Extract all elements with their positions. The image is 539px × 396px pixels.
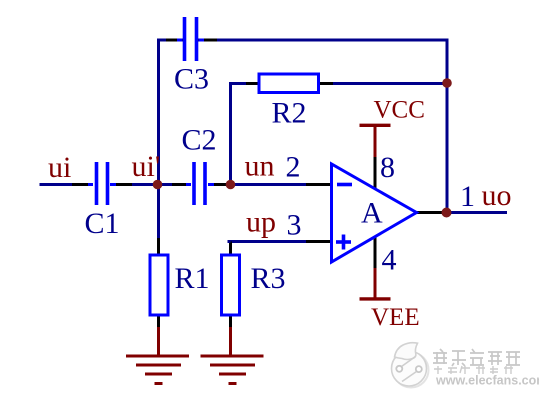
label C2: [182, 124, 217, 157]
label R2: [272, 97, 307, 130]
capacitor C3: [177, 17, 204, 61]
wire right vertical: [446, 39, 449, 213]
pin op-amp 1 output: [416, 211, 447, 214]
wire ui' vertical up to C3: [157, 40, 160, 185]
svg-text:R2: R2: [272, 97, 307, 130]
pin C2 left: [172, 183, 188, 186]
svg-text:VCC: VCC: [374, 97, 425, 124]
label R3: [251, 262, 286, 295]
watermark logo: [392, 343, 429, 388]
svg-text:8: 8: [380, 151, 395, 184]
label op-amp A: [361, 197, 383, 230]
svg-text:3: 3: [287, 209, 302, 242]
pin R2 right: [318, 82, 333, 85]
wire un to op-amp pin 2: [231, 183, 331, 186]
label C3: [174, 63, 209, 96]
node un junction: [226, 180, 236, 190]
svg-text:un: un: [245, 150, 275, 183]
svg-text:A: A: [361, 197, 383, 230]
label pin 8: [380, 151, 395, 184]
wire C3 to top right corner: [198, 39, 449, 42]
wire C1 to ui': [112, 183, 157, 186]
ground under R1: [126, 356, 189, 384]
wire C2 to un: [209, 183, 232, 186]
svg-text:4: 4: [382, 244, 397, 277]
resistor R3: [222, 255, 240, 315]
label pin 3: [287, 209, 302, 242]
pin R1 bottom: [157, 315, 160, 328]
wire ui' vertical down to R1: [157, 185, 160, 249]
wire up horizontal to pin 3: [229, 240, 331, 243]
svg-text:ui: ui: [48, 151, 71, 184]
svg-text:1: 1: [460, 180, 475, 213]
pin C1 left: [72, 183, 88, 186]
power VEE symbol: [360, 268, 391, 299]
pin R3 top: [229, 240, 231, 255]
label R1: [175, 262, 210, 295]
ground lead R1: [157, 327, 160, 357]
svg-text:www.elecfans.com: www.elecfans.com: [435, 374, 539, 388]
wire top left to C3: [157, 39, 183, 42]
pin C2 right: [212, 183, 226, 186]
svg-text:R1: R1: [175, 262, 210, 295]
label VCC: [374, 97, 425, 124]
pin op-amp 4: [374, 237, 377, 270]
svg-text:R3: R3: [251, 262, 286, 295]
svg-text:C2: C2: [182, 124, 217, 157]
wire input ui horizontal: [40, 183, 93, 186]
label VEE: [371, 304, 420, 331]
wire ui' to C2: [157, 183, 190, 186]
svg-text:C1: C1: [85, 207, 120, 240]
power VCC symbol: [360, 125, 391, 157]
ground lead R3: [229, 327, 232, 357]
svg-text:up: up: [246, 206, 276, 239]
wire output: [447, 211, 507, 214]
svg-text:uo: uo: [482, 179, 512, 212]
pin op-amp 3: [306, 240, 331, 243]
pin C1 right: [116, 183, 132, 186]
resistor R1: [150, 255, 168, 315]
capacitor C1: [88, 162, 116, 205]
node ui' junction: [153, 180, 163, 190]
label ui: [48, 151, 71, 184]
pin R3 bottom: [229, 315, 232, 328]
pin op-amp 8: [374, 155, 377, 188]
ground under R3: [201, 356, 264, 384]
label un: [245, 150, 275, 183]
op-amp U A: [332, 164, 417, 262]
label pin 4: [382, 244, 397, 277]
svg-text:2: 2: [286, 151, 301, 184]
label pin 1: [460, 180, 475, 213]
wire un vertical to R2: [229, 84, 232, 185]
svg-text:C3: C3: [174, 63, 209, 96]
label ui': [132, 150, 161, 183]
label C1: [85, 207, 120, 240]
svg-text:VEE: VEE: [371, 304, 420, 331]
resistor R2: [259, 74, 319, 93]
label up: [246, 206, 276, 239]
label pin 2: [286, 151, 301, 184]
capacitor C2: [186, 162, 214, 205]
pin C3 left: [166, 39, 179, 42]
node R2-feedback junction: [442, 78, 452, 88]
svg-text:ui': ui': [132, 150, 161, 183]
node output junction: [442, 208, 452, 218]
pin op-amp 2: [306, 183, 331, 186]
wire R2 horizontal: [229, 82, 447, 85]
label uo: [482, 179, 512, 212]
watermark text: [433, 349, 539, 389]
pin R1 top: [157, 238, 160, 255]
pin C3 right: [202, 39, 217, 42]
pin R2 left: [246, 82, 259, 85]
